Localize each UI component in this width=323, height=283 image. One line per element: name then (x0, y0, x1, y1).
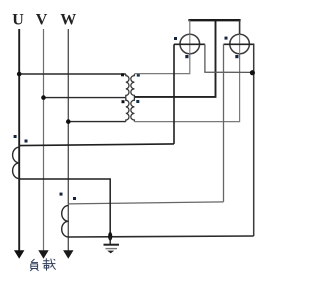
load label 负 (30, 259, 38, 271)
wire W to PT primary bottom (68, 121, 126, 123)
W2 current coil line (224, 43, 255, 45)
wire W2 current in from W CT (223, 44, 225, 202)
PT secondary winding 1 (131, 74, 135, 98)
ground bar 3 (107, 251, 114, 254)
ground bar 1 (104, 244, 120, 246)
polarity dot CT W primary (60, 193, 63, 196)
W2 voltage coil line (239, 34, 241, 54)
wire PT secondary bottom to meter 2 voltage coil (134, 54, 239, 122)
W1 voltage coil line (189, 34, 191, 54)
polarity dot CT U secondary (25, 140, 28, 143)
arrow W (63, 250, 73, 259)
CT U secondary top wire (19, 144, 174, 146)
polarity dot W1 coil (185, 55, 188, 58)
node on V (41, 95, 46, 100)
wire PT secondary middle to top bus (134, 20, 215, 97)
wire W1 current out to common (205, 44, 253, 72)
polarity dot W2 coil (235, 55, 238, 58)
phase line V (43, 29, 45, 251)
CT on U secondary coil (13, 147, 20, 178)
polarity dot PT secondary 1 (137, 74, 140, 77)
meter element W1 (180, 34, 200, 54)
top bus (188, 19, 240, 21)
meter element W2 (230, 34, 250, 54)
wire W CT secondary top (68, 202, 223, 204)
PT primary winding 1 (U-V) (126, 74, 129, 98)
polarity dot W2 in (225, 37, 228, 40)
wire W1 current in from U CT (173, 44, 175, 144)
phase line U (18, 29, 20, 251)
PT secondary winding 2 (131, 98, 135, 122)
svg-text:W: W (60, 12, 76, 29)
node on U (17, 72, 22, 77)
polarity dot W1 in (174, 37, 177, 40)
CT on W secondary coil (62, 206, 69, 237)
node common (250, 70, 255, 75)
wire U to PT primary top (19, 73, 126, 75)
svg-text:U: U (12, 12, 24, 29)
PT primary winding 2 (V-W) (126, 98, 129, 122)
W1 current coil line (174, 43, 205, 45)
phase line W (67, 29, 69, 251)
arrow V (38, 250, 48, 259)
ground bar 2 (106, 248, 118, 250)
polarity dot PT secondary 2 (136, 100, 139, 103)
polarity dot CT U primary (14, 135, 17, 138)
wire V to PT primary middle (44, 97, 126, 99)
ground junction (108, 232, 112, 241)
riser bus to meter 1 (189, 20, 191, 34)
wire common return (68, 236, 253, 237)
node on W (66, 119, 71, 124)
ground stem (109, 236, 111, 244)
riser bus to meter 2 (239, 20, 241, 34)
wire PT secondary top to meter 1 voltage coil (134, 54, 189, 74)
CT U secondary bottom wire (19, 179, 110, 236)
arrow U (14, 250, 24, 259)
load label 载 (43, 258, 56, 270)
polarity dot PT primary 1 (121, 73, 124, 76)
wire W2 current out down to common (253, 44, 255, 236)
polarity dot CT W secondary (73, 197, 76, 200)
svg-text:V: V (36, 12, 48, 29)
polarity dot PT primary 2 (122, 100, 125, 103)
